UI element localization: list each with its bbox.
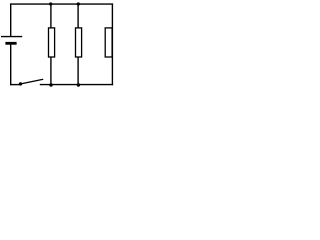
- wire left from battery to bottom rail: [10, 45, 12, 86]
- battery cell B1 short plate (-): [5, 42, 16, 45]
- node junction bottom of R1: [49, 83, 52, 86]
- wire right rail: [111, 4, 113, 86]
- wire resistor R1 bottom lead: [50, 57, 52, 85]
- resistor R3 body: [105, 28, 112, 57]
- node junction top of R2: [77, 2, 80, 5]
- wire bottom rail: [40, 84, 113, 86]
- wire left from top rail to battery: [10, 4, 12, 37]
- resistor R1 body: [49, 28, 55, 57]
- wire top rail: [10, 3, 113, 5]
- wire bottom-left segment to switch: [10, 84, 20, 86]
- resistor R2 body: [76, 28, 82, 57]
- node junction bottom of R2: [77, 83, 80, 86]
- switch S1 contact node: [19, 82, 22, 85]
- node junction top of R1: [49, 2, 52, 5]
- wire resistor R1 top lead: [50, 4, 52, 28]
- wire resistor R2 bottom lead: [77, 57, 79, 85]
- switch S1 lever (open): [21, 79, 43, 84]
- battery cell B1 long plate (+): [1, 36, 22, 38]
- wire resistor R2 top lead: [77, 4, 79, 28]
